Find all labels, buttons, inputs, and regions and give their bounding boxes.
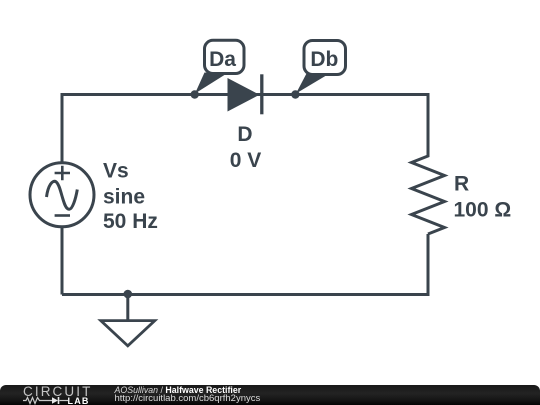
svg-text:Vs: Vs xyxy=(103,160,129,183)
CircuitLab logo wordmark LAB xyxy=(68,396,90,405)
svg-text:Db: Db xyxy=(310,48,338,71)
node flag Db (rounded box) xyxy=(304,41,346,75)
diode D (anode triangle) xyxy=(228,78,260,112)
resistor R (zigzag body) xyxy=(412,155,445,234)
junction dot node Db xyxy=(291,90,299,98)
ground symbol (triangle) xyxy=(101,321,155,346)
wire left lower (Vs bottom terminal to bottom-left corner) xyxy=(61,227,64,295)
wire top right (node Db to top-right corner) xyxy=(295,95,428,156)
diode D cathode bar xyxy=(260,74,263,114)
wire top middle (node Da through diode D to node Db) xyxy=(195,93,296,96)
svg-text:50 Hz: 50 Hz xyxy=(103,210,158,233)
wire top (Vs top-left corner to node Da) xyxy=(62,93,195,95)
svg-text:100 Ω: 100 Ω xyxy=(454,198,512,221)
node flag Da (pointer wedge) xyxy=(195,73,226,94)
junction dot node Da xyxy=(191,90,199,98)
ground stub wire xyxy=(126,295,129,321)
svg-text:R: R xyxy=(454,173,469,196)
svg-text:Da: Da xyxy=(209,48,236,71)
voltage source Vs (circle with sine symbol, + and - marks) xyxy=(30,163,94,227)
junction dot ground node xyxy=(124,290,133,299)
node flag Da (rounded box) xyxy=(205,40,245,73)
node flag Db (pointer wedge) xyxy=(296,74,327,94)
svg-text:D: D xyxy=(237,123,252,146)
footer bar xyxy=(0,385,540,405)
footer attribution line 2 xyxy=(115,393,261,404)
svg-text:sine: sine xyxy=(103,185,145,208)
CircuitLab logo schematic squiggle (resistor + diode) xyxy=(23,396,69,405)
svg-text:0 V: 0 V xyxy=(230,149,262,172)
wire left upper (corner to Vs top terminal) xyxy=(61,95,64,164)
CircuitLab logo wordmark CIRCUIT xyxy=(23,384,92,399)
footer attribution line 1 xyxy=(115,385,242,395)
wire bottom (bottom-left corner to bottom-right corner, ground net) xyxy=(62,234,428,295)
